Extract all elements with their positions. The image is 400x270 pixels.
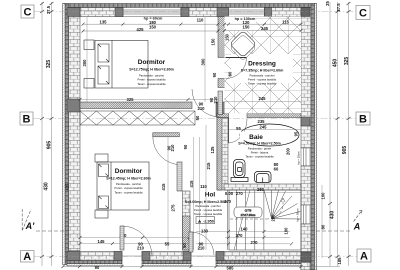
wall left insulation outer band [63, 4, 66, 265]
wall right brick middle [301, 166, 311, 205]
svg-text:C: C [24, 7, 32, 19]
pillow 1b [98, 66, 109, 84]
svg-text:80: 80 [228, 71, 233, 76]
concrete post bottom-left corner [67, 252, 80, 261]
dim line dorm1 right1 [204, 17, 206, 102]
svg-text:210: 210 [170, 144, 175, 152]
svg-text:Dormitor: Dormitor [138, 59, 166, 66]
wall dormitor2 / hol vertical upper stub [153, 133, 180, 137]
door dorm1 arc [192, 89, 220, 117]
svg-text:B: B [359, 114, 367, 126]
wall baie south [224, 184, 301, 190]
svg-text:hp = 30cm: hp = 30cm [297, 151, 301, 164]
stair winder fan [264, 190, 301, 219]
svg-text:C: C [359, 8, 367, 20]
stair outline [229, 190, 301, 250]
svg-text:Tavan - vopsea lavabila: Tavan - vopsea lavabila [114, 190, 143, 194]
svg-text:135: 135 [100, 20, 108, 25]
svg-text:115: 115 [282, 20, 289, 25]
svg-text:325: 325 [46, 60, 52, 69]
axis line B [33, 118, 356, 120]
svg-text:0.00: 0.00 [225, 191, 234, 196]
svg-text:Cf T6: Cf T6 [245, 208, 252, 212]
svg-text:A: A [23, 251, 31, 263]
svg-text:270: 270 [251, 240, 259, 245]
bottom exterior dim line [63, 266, 340, 268]
svg-text:A': A' [25, 221, 35, 231]
svg-text:Hol: Hol [205, 191, 216, 198]
stair treads [228, 190, 264, 250]
dim line dorm2 bottom2 [80, 243, 190, 245]
section line A' left [36, 230, 66, 232]
svg-text:210: 210 [137, 245, 145, 250]
top dim line room2 upper [225, 23, 302, 25]
hol text [185, 125, 232, 250]
toilet bowl [234, 160, 246, 178]
dim line baie bottom [228, 191, 301, 193]
level marker box [196, 217, 215, 224]
svg-text:Tavan - vopsea lavabila: Tavan - vopsea lavabila [245, 155, 274, 159]
blanket line 2 [110, 162, 112, 210]
stair dim ticks [227, 230, 293, 245]
pillow 2b [99, 196, 109, 209]
concrete post bottom right of D2 [216, 252, 224, 261]
wall top insulation band [63, 4, 316, 8]
concrete post top-right corner [301, 8, 310, 17]
top room2 ticks [223, 23, 303, 32]
svg-text:450: 450 [333, 59, 339, 68]
svg-text:210: 210 [198, 106, 206, 111]
door dressing leaf [226, 57, 247, 59]
top dim line room1 upper [83, 23, 218, 25]
window W3 baie hp=30 [301, 148, 310, 166]
svg-text:200: 200 [286, 147, 291, 155]
svg-text:25: 25 [325, 1, 330, 6]
svg-text:Dressing: Dressing [248, 61, 276, 68]
section line A' right [316, 230, 352, 232]
door D1 arc [122, 226, 152, 256]
wall right brick upper [301, 8, 311, 149]
wall hol / baie vertical [217, 118, 228, 191]
stair walk line [230, 198, 283, 219]
wall bottom insulation band seg1 [67, 261, 122, 264]
window W4 stair hp=30 [301, 205, 310, 224]
door dressing arc [226, 58, 247, 79]
svg-text:110: 110 [197, 17, 204, 22]
door D2 leaf [189, 232, 193, 252]
top dim line room2 lower [225, 30, 302, 32]
svg-text:140: 140 [241, 227, 249, 232]
dorm2 bottom dim ticks [79, 236, 192, 245]
dim line hol vertical [205, 125, 207, 250]
concrete post bottom-right corner [301, 252, 311, 262]
window W2 hp=130 opening [229, 8, 265, 17]
svg-text:245: 245 [260, 125, 268, 130]
svg-text:S=12.75mp; H liber=2.60m: S=12.75mp; H liber=2.60m [129, 68, 174, 72]
svg-text:Pereti - vopsea lavabila: Pereti - vopsea lavabila [248, 78, 276, 82]
svg-text:185: 185 [337, 257, 342, 265]
svg-text:245: 245 [259, 96, 267, 101]
svg-text:275: 275 [171, 204, 176, 212]
wall dormitor2 / hol vertical [183, 191, 191, 250]
wardrobe dormitor2 [80, 111, 195, 125]
svg-text:Pereti - vopsea lavabila: Pereti - vopsea lavabila [115, 186, 143, 190]
partition segment below dressing door [218, 79, 226, 88]
svg-text:585: 585 [227, 266, 235, 270]
bottom ticks [62, 265, 303, 268]
svg-text:210: 210 [213, 96, 218, 104]
window W1 hp=60 opening [123, 8, 181, 17]
svg-text:Pardoseala - parchet: Pardoseala - parchet [116, 182, 141, 186]
svg-text:37.5: 37.5 [46, 5, 51, 14]
grid bubble A right [357, 249, 371, 262]
bed 1 [95, 40, 148, 88]
svg-text:50: 50 [195, 115, 200, 120]
dim line dorm1 left [86, 17, 88, 102]
door dorm2 leaf [177, 162, 182, 191]
concrete post bottom flanking D1 right [142, 252, 150, 261]
svg-text:Tavan - vopsea lavabila: Tavan - vopsea lavabila [194, 212, 223, 216]
svg-text:100: 100 [284, 227, 289, 235]
svg-text:425: 425 [137, 27, 145, 32]
svg-text:150: 150 [149, 24, 157, 29]
wall bottom brick segment 4 [301, 252, 310, 270]
svg-text:110: 110 [200, 184, 207, 189]
svg-text:150: 150 [243, 25, 251, 30]
svg-text:130: 130 [201, 228, 209, 233]
door dorm1 leaf [218, 91, 223, 115]
dim line right 1 [329, 2, 331, 266]
top room1 ticks [82, 23, 220, 33]
wall dressing / baie horizontal left [217, 114, 229, 118]
svg-text:-2.950: -2.950 [203, 220, 214, 224]
top dim line room1 lower [83, 30, 218, 32]
dim line left inner [51, 2, 53, 266]
concrete post right of window W1 [181, 8, 189, 17]
svg-text:Pardoseala - parchet: Pardoseala - parchet [196, 204, 221, 208]
dim line right 3 [348, 2, 350, 266]
pillow 2a [99, 164, 109, 177]
door baie leaf [228, 118, 230, 144]
pillow 1a [98, 44, 109, 62]
svg-text:125: 125 [210, 146, 215, 154]
door D1 leaf [120, 226, 124, 250]
concrete post bottom at hol wall [183, 252, 191, 261]
wall right insulation outer band [315, 4, 317, 270]
stair walk arrow [281, 198, 285, 202]
grid bubble B left [20, 112, 33, 125]
svg-text:210: 210 [198, 245, 206, 250]
svg-text:Pardoseala - parchet: Pardoseala - parchet [139, 74, 164, 78]
wall bottom brick segment 1 [67, 252, 122, 261]
svg-text:Tavan - vopsea lavabila: Tavan - vopsea lavabila [248, 82, 277, 86]
svg-text:300: 300 [82, 59, 87, 67]
dim line right 2 [337, 2, 339, 266]
svg-text:A: A [360, 251, 368, 263]
door D2 arc [191, 232, 214, 255]
svg-text:Baie: Baie [249, 134, 263, 141]
bathtub [240, 124, 299, 146]
svg-text:80: 80 [321, 224, 326, 229]
dressing top-left clear box [225, 17, 256, 32]
svg-text:27x17.35cm: 27x17.35cm [241, 213, 256, 217]
door baie arc [229, 119, 248, 143]
svg-text:Pardoseala - parchet: Pardoseala - parchet [250, 74, 275, 78]
svg-text:S=7.35mp; H liber=2.60m: S=7.35mp; H liber=2.60m [241, 69, 284, 73]
dressing shelving grid [225, 17, 302, 114]
room title baie [240, 132, 284, 141]
dim line left outer [41, 2, 43, 266]
concrete post at partition top [217, 8, 229, 17]
svg-text:Dormitor: Dormitor [115, 168, 143, 175]
grid bubble B right [356, 112, 370, 125]
wall top brick right segment [265, 8, 311, 17]
wall top brick middle segment [181, 8, 229, 17]
svg-text:60: 60 [274, 167, 279, 172]
dressing armchair rotated square [228, 31, 258, 61]
svg-text:90: 90 [183, 144, 188, 149]
door opening D1 [122, 255, 142, 257]
axis line C [34, 11, 356, 13]
toilet tank [231, 178, 248, 182]
svg-text:415: 415 [65, 183, 70, 191]
svg-text:150: 150 [211, 38, 216, 46]
concrete post right of window W2 [265, 8, 272, 17]
axis line A [34, 256, 357, 258]
svg-text:hp = 30cm: hp = 30cm [296, 208, 300, 221]
blanket line [111, 40, 113, 88]
nightstand 2 bottom [95, 210, 108, 218]
grid bubble A left [21, 251, 35, 263]
wall stub south of dorm1 door / junction post [216, 102, 228, 117]
svg-text:200: 200 [271, 214, 276, 222]
wall top brick left segment [63, 8, 123, 17]
svg-text:145: 145 [98, 239, 106, 244]
concrete post left of window W1 [115, 8, 123, 17]
wall bottom brick segment 3 [216, 252, 301, 261]
concrete post right wall at baie wall junction [301, 117, 310, 126]
svg-text:905: 905 [342, 146, 348, 155]
stair [196, 190, 301, 250]
svg-text:430: 430 [330, 211, 336, 220]
stair dim lines horizontal [196, 232, 290, 244]
svg-text:B: B [23, 114, 31, 126]
stair label box [234, 207, 262, 218]
wall left brick [69, 8, 81, 251]
svg-text:215: 215 [206, 162, 211, 170]
dim line dressing bottom [225, 101, 302, 103]
svg-text:37.5: 37.5 [336, 3, 341, 12]
svg-text:905: 905 [47, 141, 53, 150]
svg-text:S=12.45mp; H liber=2.60m: S=12.45mp; H liber=2.60m [106, 177, 151, 181]
grid bubble C left [21, 5, 34, 18]
concrete post left wall at B wall junction [67, 99, 80, 112]
svg-text:260: 260 [257, 187, 265, 192]
svg-text:430: 430 [44, 182, 50, 191]
dim line hol vertical 3 [199, 137, 201, 250]
svg-text:415: 415 [161, 183, 166, 191]
section arrow left [22, 209, 31, 231]
nightstand 2 top [95, 154, 108, 162]
svg-text:370: 370 [236, 233, 244, 238]
svg-text:S=4.50mp; H liber=2.50m: S=4.50mp; H liber=2.50m [238, 142, 281, 146]
left chain ticks [40, 2, 54, 258]
svg-text:150: 150 [224, 33, 229, 41]
svg-text:95: 95 [294, 131, 299, 136]
wall left insulation dark band [65, 4, 69, 265]
svg-text:A: A [353, 222, 361, 232]
dim line baie top [228, 129, 301, 131]
bed 2 [97, 162, 149, 210]
grid bubble C right [356, 6, 370, 20]
section arrow right [354, 210, 362, 221]
wall bottom brick segment 2 [142, 252, 191, 261]
door opening D2 [191, 255, 216, 257]
dim line dorm1 bottom [80, 99, 218, 101]
svg-text:245: 245 [261, 26, 269, 31]
right chain ticks [328, 2, 351, 258]
wall right brick lower [301, 224, 311, 270]
partition dormitor1 / dressing vertical [218, 17, 226, 58]
svg-text:Tavan - vopsea lavabila: Tavan - vopsea lavabila [137, 82, 166, 86]
nightstand top [84, 40, 94, 50]
svg-text:415: 415 [189, 180, 194, 188]
wall dormitor1 south [80, 102, 192, 109]
dim line dorm2 right [167, 137, 169, 250]
svg-text:55: 55 [165, 241, 170, 246]
svg-text:90: 90 [95, 265, 100, 270]
svg-text:300: 300 [201, 58, 206, 66]
dressing text clear box [231, 54, 293, 83]
svg-text:Pereti - vopsea lavabila: Pereti - vopsea lavabila [194, 208, 222, 212]
wall bottom insulation band seg3 [216, 261, 301, 264]
svg-text:Pereti - vopsea lavabila: Pereti - vopsea lavabila [138, 78, 166, 82]
svg-text:100: 100 [321, 192, 326, 200]
dim line right wall chain [321, 185, 323, 258]
svg-text:90: 90 [212, 72, 217, 77]
concrete post bottom flanking D1 left [114, 252, 122, 261]
svg-text:55: 55 [236, 126, 241, 131]
dim line dorm2 bottom1 [80, 237, 190, 239]
svg-text:50: 50 [182, 243, 187, 248]
washbasin [255, 172, 272, 183]
svg-text:Pereti - faianta: Pereti - faianta [251, 151, 269, 155]
stair break line [234, 190, 250, 250]
dim line hol vertical 2 [193, 137, 195, 250]
svg-text:235: 235 [258, 119, 266, 124]
wall dressing / baie horizontal right [247, 114, 301, 118]
wall bottom insulation band seg2 [142, 261, 191, 264]
wall right insulation dark band [311, 4, 315, 270]
svg-text:325: 325 [344, 57, 350, 66]
svg-text:Pardoseala - gresie: Pardoseala - gresie [248, 147, 272, 151]
door dorm2 arc [153, 137, 181, 165]
concrete post top-left corner [67, 8, 80, 17]
svg-text:270: 270 [236, 191, 244, 196]
nightstand bottom [84, 79, 94, 89]
